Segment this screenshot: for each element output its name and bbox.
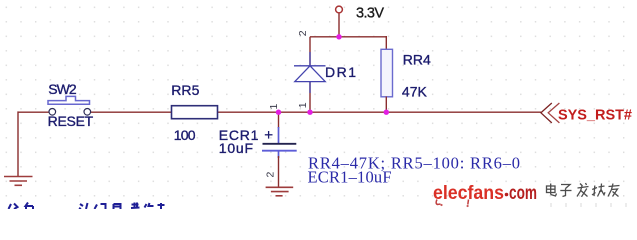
svg-text:2: 2 — [265, 172, 277, 178]
ground symbol (under capacitor) — [266, 187, 294, 196]
pin wire blue of capacitor pin 1 — [278, 127, 280, 143]
ground symbol (left) — [4, 177, 33, 186]
wire: top rail DR1 to RR4 — [310, 36, 386, 38]
wire: main horizontal RR5 right to port — [218, 111, 542, 113]
svg-text:com: com — [509, 183, 537, 204]
junction dot capacitor — [276, 110, 281, 115]
watermark logo dot — [505, 193, 509, 197]
resistor RR4 — [381, 49, 393, 97]
svg-text:DR1: DR1 — [325, 64, 356, 80]
SW2 pin circle 2 — [84, 109, 91, 116]
svg-text:3.3V: 3.3V — [356, 6, 384, 22]
port chevron inner — [548, 103, 559, 123]
svg-text:RR4: RR4 — [403, 51, 431, 67]
switch SW2 symbol — [48, 96, 90, 104]
junction dot RR4 — [384, 110, 389, 115]
capacitor ECR1 plate 1 (+) — [263, 143, 297, 145]
svg-text:SYS_RST#: SYS_RST# — [558, 107, 632, 123]
plus sign — [265, 131, 273, 139]
svg-text:RR5: RR5 — [171, 82, 199, 98]
svg-text:47K: 47K — [402, 83, 428, 99]
wire: 3.3V drop — [338, 13, 340, 37]
faint clipped row under hanzi — [551, 203, 626, 207]
svg-text:100: 100 — [174, 127, 196, 143]
capacitor ECR1 plate 2 — [262, 150, 297, 152]
watermark hanzi 子 — [560, 185, 571, 197]
port chevron outer — [541, 103, 552, 123]
svg-text:ECR1–10uF: ECR1–10uF — [308, 167, 392, 186]
clipped caption fragment (bottom left) — [9, 203, 165, 210]
SW2 pin circle 1 — [49, 109, 56, 116]
watermark hanzi 发 — [577, 183, 589, 197]
junction dot at 3.3V rail — [336, 34, 341, 39]
svg-text:2: 2 — [297, 30, 309, 36]
wire: capacitor bottom to ground — [278, 156, 280, 187]
junction dot diode — [307, 110, 312, 115]
wire: left vertical down to ground — [17, 111, 19, 176]
wire: left horizontal from ground corner to SW2 pin 1 — [18, 111, 49, 113]
svg-text:RESET: RESET — [48, 113, 94, 129]
svg-text:10uF: 10uF — [219, 140, 253, 156]
wire: RR4 top stub — [385, 36, 387, 50]
power port 3.3V circle — [336, 6, 343, 13]
logo descender under f — [467, 200, 470, 205]
svg-text:1: 1 — [268, 104, 280, 110]
wire: SW2 pin2 to RR5 left — [91, 111, 172, 113]
diode DR1 symbol — [294, 52, 326, 93]
pin wire blue of capacitor pin 2 — [278, 151, 280, 158]
resistor RR5 — [172, 106, 218, 119]
watermark hanzi 友 — [608, 184, 620, 197]
svg-text:1: 1 — [297, 102, 309, 108]
watermark hanzi 烧 — [592, 184, 605, 197]
wire: RR4 bottom stub — [385, 97, 387, 113]
svg-text:SW2: SW2 — [48, 81, 77, 97]
wire: diode vertical red — [309, 37, 311, 112]
wire: capacitor vertical (top, red part) — [278, 112, 280, 128]
watermark hanzi 电 — [547, 184, 557, 197]
logo descender under e — [436, 200, 440, 205]
